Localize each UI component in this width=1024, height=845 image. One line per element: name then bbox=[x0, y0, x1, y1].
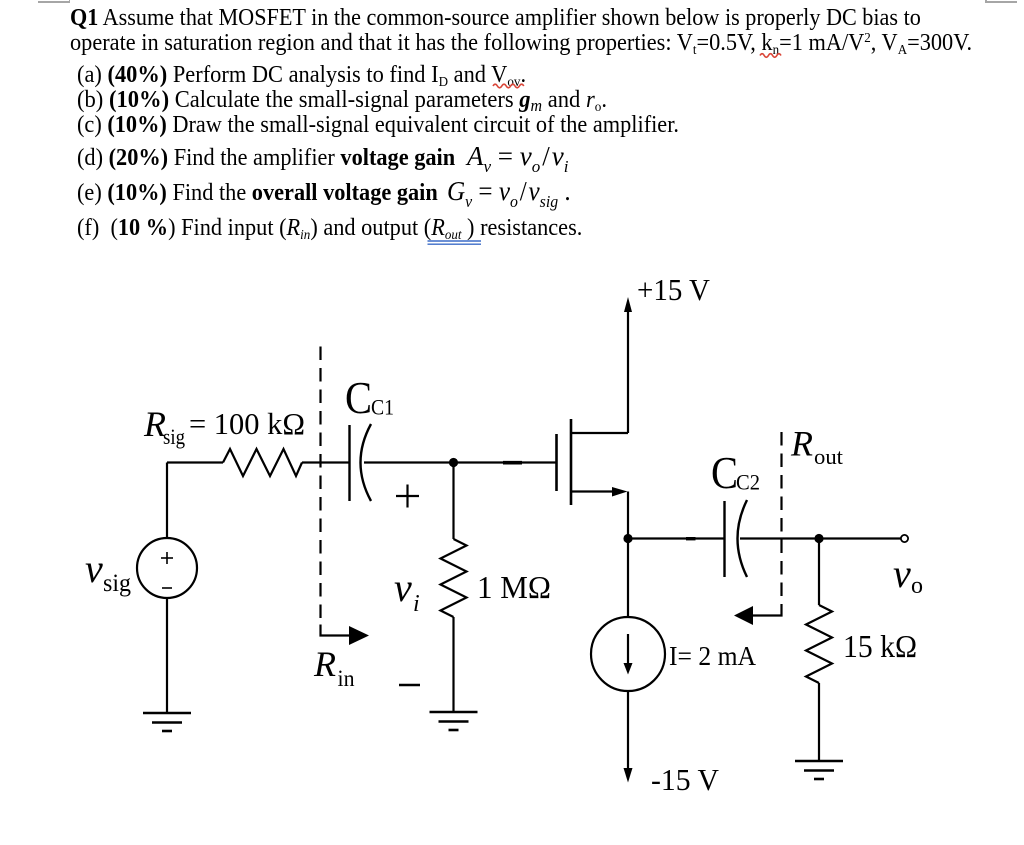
svg-text:sig: sig bbox=[163, 424, 185, 449]
svg-text:15 kΩ: 15 kΩ bbox=[843, 628, 917, 664]
svg-text:1 MΩ: 1 MΩ bbox=[477, 569, 551, 605]
svg-text:i: i bbox=[413, 591, 420, 617]
svg-text:v: v bbox=[85, 546, 103, 591]
svg-text:= 100 kΩ: = 100 kΩ bbox=[189, 406, 305, 441]
svg-text:C: C bbox=[711, 447, 738, 498]
svg-text:I= 2 mA: I= 2 mA bbox=[669, 641, 756, 671]
svg-text:+15 V: +15 V bbox=[637, 272, 711, 307]
svg-text:v: v bbox=[394, 565, 412, 610]
svg-text:out: out bbox=[814, 444, 843, 469]
svg-text:C2: C2 bbox=[736, 470, 760, 495]
svg-text:v: v bbox=[893, 551, 911, 596]
svg-text:in: in bbox=[338, 666, 355, 691]
svg-text:-15 V: -15 V bbox=[651, 762, 720, 797]
svg-text:R: R bbox=[313, 644, 336, 684]
svg-text:R: R bbox=[790, 424, 813, 464]
svg-text:C1: C1 bbox=[371, 395, 394, 420]
svg-text:sig: sig bbox=[103, 570, 131, 597]
svg-text:C: C bbox=[345, 372, 372, 423]
svg-text:o: o bbox=[911, 573, 923, 599]
